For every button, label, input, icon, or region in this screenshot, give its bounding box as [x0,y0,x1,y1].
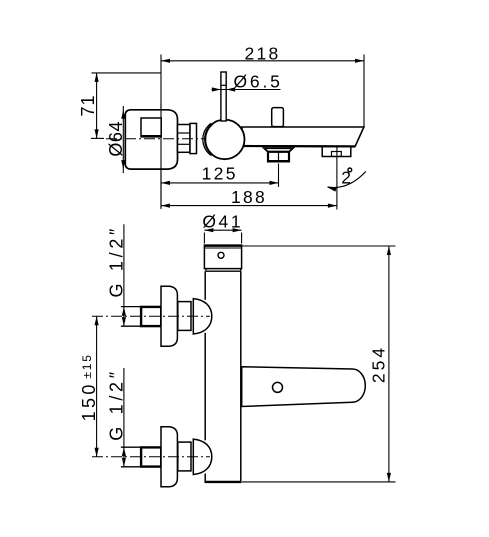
dimension D41 extensions [203,233,205,244]
lower dome union [193,439,212,474]
extension line left overlay through flange [160,104,162,209]
upper connector [178,302,191,331]
dimension 125 line [161,182,279,184]
lower hex nut [141,447,161,466]
connector block B [190,123,197,153]
body cap (lever top) [204,245,241,269]
flange inner square [141,118,161,137]
spout body [242,127,364,146]
dimension 218 arrows [161,59,364,63]
upper G-dim line [123,224,125,326]
upper wall flange [161,286,177,346]
diverter nut body [268,152,289,162]
dimension 254 line [388,246,390,482]
svg-text:Ø6.5: Ø6.5 [234,71,283,91]
handle crescent arcs [203,123,211,155]
dimension 71 top extension [92,72,162,74]
diverter nut flange [264,148,293,152]
cap screw circle [218,252,224,258]
lower wall flange [161,427,177,487]
svg-text:125: 125 [202,164,238,184]
body column bold bottom [205,481,242,483]
connector block A [178,125,191,153]
svg-text:188: 188 [231,187,267,207]
extension line left (x=161) [160,55,162,209]
svg-text:G 1/2″: G 1/2″ [107,368,127,441]
spout (plan view) [242,367,366,407]
svg-text:150: 150 [79,381,99,421]
wall flange [125,110,177,169]
extension line right (x=364) [363,55,365,128]
svg-text:218: 218 [244,44,280,64]
cap/body joint [206,270,241,272]
body column left edge (interrupted by unions) [204,271,206,300]
dimension 150 line [96,316,98,457]
dimension 254 top extension [242,245,396,247]
2 degree arc [328,172,366,188]
dimension 254 bottom extension [242,481,396,483]
svg-text:2: 2 [341,168,351,188]
lever rod [221,72,226,121]
upper centerline [92,315,210,317]
upper pipe [121,306,141,308]
dimension 218 line [161,60,364,62]
lever rod tick [221,84,226,86]
dimension 188 line [161,205,337,207]
svg-text:G 1/2″: G 1/2″ [107,225,127,298]
spout underside bold edge [243,145,355,148]
dimension D6.5 leader line [212,89,281,91]
dimension D64 line [122,106,124,173]
dimension 71 bottom tick [91,137,104,139]
body column right edge [240,271,242,482]
dimension 71 line [96,73,98,138]
svg-text:Ø41: Ø41 [202,212,243,232]
diverter nut bold bottom [268,160,290,162]
flange inner square bold bottom edge [141,135,162,138]
svg-text:71: 71 [78,94,98,116]
upper hex nut [141,307,161,326]
svg-text:±15: ±15 [80,353,94,378]
outlet aerator block [322,147,351,157]
lower G-dim line [123,368,125,467]
svg-text:254: 254 [368,345,388,383]
diverter knob on spout [272,108,284,127]
dimension 188 extension [336,147,338,210]
dimension D41 line [204,229,241,231]
dimension 125 extension [278,164,280,187]
centerline of body (dash-dot) [106,138,206,140]
upper dome union [193,299,212,334]
lower pipe [121,446,141,448]
lower centerline [92,456,210,458]
handle knob circle [205,120,245,160]
spout hole circle [273,382,283,392]
lower connector [178,442,191,471]
outlet inner tab [332,152,342,157]
